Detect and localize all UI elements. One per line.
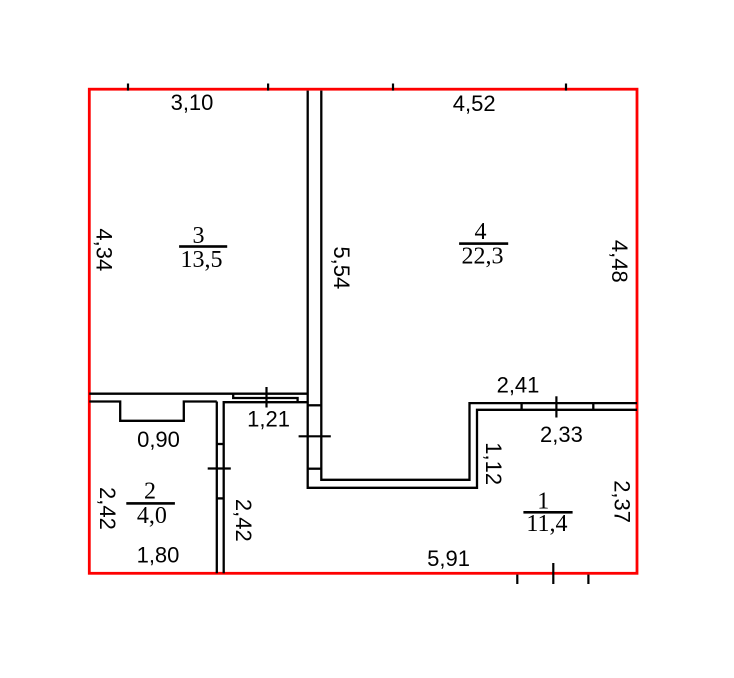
svg-text:2,33: 2,33: [540, 422, 583, 447]
svg-text:2,42: 2,42: [95, 487, 120, 530]
svg-text:2,41: 2,41: [497, 373, 540, 398]
svg-text:11,4: 11,4: [526, 511, 567, 537]
svg-text:4,0: 4,0: [137, 503, 167, 529]
svg-text:4,48: 4,48: [607, 240, 632, 283]
svg-text:3: 3: [193, 223, 205, 249]
svg-text:2: 2: [144, 479, 156, 505]
svg-text:0,90: 0,90: [137, 427, 180, 452]
svg-text:3,10: 3,10: [171, 90, 214, 115]
svg-text:13,5: 13,5: [181, 247, 223, 273]
svg-text:2,37: 2,37: [609, 480, 634, 523]
svg-text:4,34: 4,34: [92, 228, 117, 271]
svg-text:1,80: 1,80: [137, 543, 180, 568]
svg-text:2,42: 2,42: [231, 499, 256, 542]
svg-text:1,12: 1,12: [481, 442, 506, 485]
svg-text:1,21: 1,21: [247, 407, 290, 432]
svg-text:4: 4: [475, 219, 487, 245]
svg-text:5,54: 5,54: [329, 246, 354, 289]
svg-text:5,91: 5,91: [427, 546, 470, 571]
svg-text:22,3: 22,3: [462, 244, 504, 270]
svg-text:4,52: 4,52: [453, 91, 496, 116]
